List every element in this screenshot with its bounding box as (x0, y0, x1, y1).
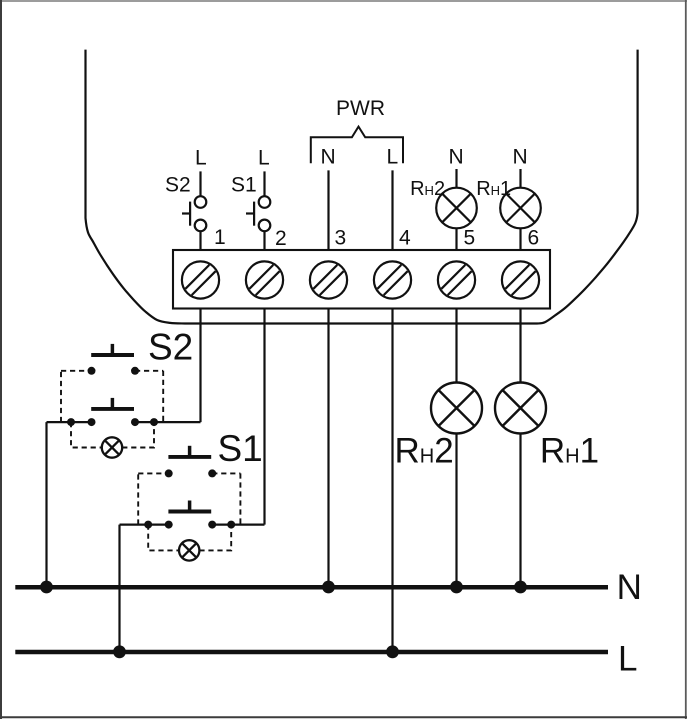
N bus (15, 585, 608, 590)
wire S1 to L bus (118, 525, 120, 652)
node lamp RH2 on N bus (450, 581, 463, 594)
wire S2 to N bus (45, 422, 47, 587)
svg-text:3: 3 (335, 227, 347, 250)
wire terminal 4 down to L bus (391, 309, 393, 652)
terminal screw 6 (502, 261, 539, 298)
lamp RH1 (top) (500, 188, 541, 229)
wire L lead to S2 contact (199, 171, 201, 196)
wire terminal 1 down to S2 button (199, 309, 201, 423)
terminal screw 2 (246, 261, 283, 298)
svg-text:L: L (618, 640, 637, 679)
node S2 rail b (88, 418, 96, 426)
wire lamp RH2 to N bus (455, 434, 457, 588)
node S2 housing top-right (131, 367, 139, 375)
svg-text:6: 6 (528, 227, 540, 250)
svg-text:PWR: PWR (336, 97, 385, 120)
push button S1 actuator (168, 446, 211, 457)
svg-text:S1: S1 (231, 174, 257, 197)
svg-text:1: 1 (214, 226, 226, 249)
terminal screw 4 (374, 261, 411, 298)
svg-text:L: L (195, 147, 207, 170)
wire S1 glow lamp loop (dashed) (148, 525, 231, 551)
terminal screw 1 (182, 261, 219, 298)
node S1 wire on L bus (113, 645, 126, 658)
wire N to terminal 3 (327, 170, 329, 250)
push button S2 housing (dashed) (61, 371, 163, 422)
glow lamp in S2 button (102, 437, 122, 457)
node S2 rail c (131, 418, 139, 426)
svg-text:2: 2 (275, 227, 287, 250)
svg-text:L: L (387, 145, 399, 168)
node S1 rail c (208, 521, 216, 529)
terminal screw 3 (310, 261, 347, 298)
wire S2 glow lamp loop (dashed) (71, 422, 154, 447)
wire lamp RH1 to N bus (519, 434, 521, 588)
svg-text:5: 5 (464, 227, 476, 250)
wire terminal 5 down to lamp RH2 (455, 309, 457, 383)
lamp RH1 (load) (495, 383, 546, 434)
node S2 rail d (150, 418, 158, 426)
lamp RH2 (load) (431, 383, 482, 434)
node S1 rail b (165, 521, 173, 529)
node S1 housing top-left (165, 469, 173, 477)
wire terminal 3 down to N bus (327, 309, 329, 588)
wire L to terminal 4 (391, 170, 393, 250)
node S1 rail a (144, 521, 152, 529)
device outline (relay housing) (86, 50, 638, 324)
node S2 housing top-left (88, 367, 96, 375)
node terminal3 wire on N bus (322, 581, 335, 594)
node lamp RH1 on N bus (514, 581, 527, 594)
svg-text:S2: S2 (148, 327, 193, 368)
wire S1 button bottom rail (120, 523, 265, 525)
svg-text:4: 4 (399, 227, 411, 250)
wire N to lamp RH1 top (519, 169, 521, 188)
terminal screw 5 (438, 261, 475, 298)
svg-text:N: N (449, 145, 464, 168)
wire S2 button bottom rail (47, 421, 201, 423)
contact S1 (push contact circles and actuator) (246, 196, 270, 231)
terminal block (173, 250, 550, 309)
push button S2 actuator (91, 344, 134, 355)
push button S1 contact (168, 501, 211, 512)
node S2 rail a (67, 418, 75, 426)
svg-text:S1: S1 (218, 428, 263, 469)
push button S2 contact (91, 398, 134, 409)
wire terminal 2 down to S1 button (263, 309, 265, 525)
wire terminal 6 down to lamp RH1 (519, 309, 521, 383)
svg-text:N: N (321, 145, 336, 168)
wire contact S1 to terminal 2 (263, 231, 265, 250)
wire L lead to S1 contact (263, 171, 265, 196)
PWR bracket (311, 127, 403, 164)
lamp RH2 (top) (436, 188, 477, 229)
contact S2 (push contact circles and actuator) (182, 196, 206, 231)
node S1 housing top-right (208, 469, 216, 477)
node terminal4 wire on L bus (386, 645, 399, 658)
glow lamp in S1 button (179, 540, 199, 560)
push button S1 housing (dashed) (138, 473, 240, 524)
svg-text:L: L (258, 147, 270, 170)
wire lamp RH2 to terminal 5 (455, 228, 457, 250)
wire contact S2 to terminal 1 (199, 231, 201, 250)
node S2 wire on N bus (40, 581, 53, 594)
svg-text:S2: S2 (165, 174, 191, 197)
L bus (15, 650, 608, 655)
wire N to lamp RH2 top (455, 169, 457, 188)
node S1 rail d (227, 521, 235, 529)
svg-text:N: N (513, 145, 528, 168)
wire lamp RH1 to terminal 6 (519, 228, 521, 250)
svg-text:N: N (617, 568, 642, 607)
